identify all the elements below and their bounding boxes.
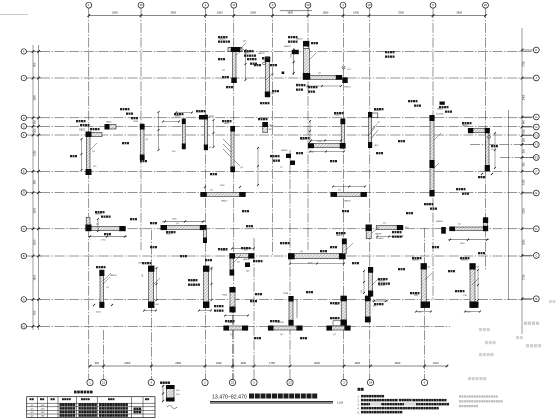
wall cluster C40 vertical pair above C37b <box>283 293 297 325</box>
wall cluster C37b bottom wall row <box>268 322 303 336</box>
wall cluster C7 <box>262 122 274 133</box>
svg-text:800: 800 <box>34 179 37 184</box>
wall cluster C22 vertical wall grid-21 low <box>93 270 118 314</box>
wall cluster C17 vertical wall grid-4 <box>368 110 381 148</box>
wall cluster C34 vertical wall right-low <box>412 260 431 314</box>
svg-text:1100: 1100 <box>433 361 439 365</box>
top-left margin dash <box>0 14 28 16</box>
svg-text:550: 550 <box>522 129 525 134</box>
floor drain symbols <box>263 62 491 138</box>
svg-text:1300: 1300 <box>354 361 360 365</box>
svg-text:1800: 1800 <box>287 11 293 15</box>
svg-text:F: F <box>535 169 537 173</box>
wall cluster C32 vertical wall low <box>334 296 347 326</box>
svg-text:23: 23 <box>288 381 292 385</box>
notes block <box>358 388 450 415</box>
svg-text:16: 16 <box>139 3 143 7</box>
horizontal grid lines <box>40 51 533 53</box>
top dimension line <box>88 11 487 17</box>
wall cluster C11 block at 18/K <box>342 77 351 88</box>
wall cluster C15 L-wall right top <box>462 125 495 179</box>
wall cluster C16 L-wall mid <box>300 115 346 154</box>
svg-text:1500: 1500 <box>34 95 37 101</box>
svg-text:GBZ19: GBZ19 <box>95 214 102 216</box>
svg-text:GBZ30: GBZ30 <box>243 259 250 261</box>
svg-text:600: 600 <box>522 119 525 124</box>
svg-text:GBZ6: GBZ6 <box>209 116 215 118</box>
wall cluster C24 vertical wall <box>138 263 160 308</box>
svg-text:1000: 1000 <box>34 239 37 245</box>
svg-text:GBZ36: GBZ36 <box>436 221 443 223</box>
wall cluster C30 long horizontal wall <box>288 235 347 265</box>
svg-text:GBZ20: GBZ20 <box>110 275 117 277</box>
svg-text:200x800: 200x800 <box>378 285 385 287</box>
svg-text:GBZ5: GBZ5 <box>175 116 181 118</box>
wall cluster C9 grid-3 top wall <box>258 53 275 97</box>
wall cluster C12 small block left of C10 <box>284 46 299 54</box>
svg-text:24: 24 <box>369 381 373 385</box>
wall cluster C8 grid-17 top wall <box>219 39 267 84</box>
svg-text:GBZ32: GBZ32 <box>336 235 343 237</box>
svg-text:B: B <box>23 254 25 258</box>
svg-text:GBZ12: GBZ12 <box>462 125 469 127</box>
svg-text:5.: 5. <box>358 411 360 414</box>
wall cluster C25 vertical wall <box>190 266 214 308</box>
svg-text:C: C <box>23 227 25 231</box>
right grid bubbles <box>522 47 539 302</box>
svg-text:G1: G1 <box>534 134 538 138</box>
svg-text:K: K <box>23 49 25 53</box>
svg-text:4.: 4. <box>358 407 360 410</box>
svg-text:GBZ34: GBZ34 <box>412 260 419 262</box>
svg-text:GBZ17: GBZ17 <box>221 201 228 203</box>
svg-text:1700: 1700 <box>522 61 525 67</box>
left grid bubbles <box>21 49 41 329</box>
svg-text:GBZ33: GBZ33 <box>378 281 385 283</box>
svg-text:GJZ1: GJZ1 <box>244 53 250 55</box>
annotation labels scatter <box>70 36 498 339</box>
svg-text:800: 800 <box>522 148 525 153</box>
svg-text:YBZ4: YBZ4 <box>133 121 139 123</box>
svg-text:1300: 1300 <box>34 207 37 213</box>
wall cluster C29 stub and horizontal wall <box>366 223 410 240</box>
svg-text:GBZ23: GBZ23 <box>296 39 303 41</box>
svg-text:H: H <box>535 115 537 119</box>
wall cluster C5 grid-2 vertical wall <box>197 112 215 151</box>
svg-text:2300: 2300 <box>125 361 131 365</box>
svg-text:2200: 2200 <box>522 208 525 214</box>
svg-text:900: 900 <box>34 62 37 67</box>
svg-text:C: C <box>535 254 537 258</box>
svg-text:200x600: 200x600 <box>376 238 383 240</box>
faint grey disclaimer text right of notes <box>459 395 503 407</box>
detail: lift shaft column section <box>160 382 181 409</box>
svg-text:300: 300 <box>34 128 37 133</box>
svg-text:3300: 3300 <box>170 11 176 15</box>
wall cluster C4 <box>172 116 186 154</box>
svg-text:20: 20 <box>484 3 488 7</box>
micro dimension rows and leaders <box>97 49 496 317</box>
tiny mark C38 <box>440 102 445 105</box>
svg-text:1750: 1750 <box>269 361 275 365</box>
wall cluster C20 horizontal wall bottom row2 right <box>331 190 367 203</box>
wall cluster C27 vertical wall below C26 <box>222 287 240 312</box>
svg-text:2600: 2600 <box>395 361 401 365</box>
svg-text:GBZ35: GBZ35 <box>461 260 468 262</box>
svg-text:D: D <box>23 191 25 195</box>
svg-text:YBZ14: YBZ14 <box>334 115 341 117</box>
wall cluster C35 vertical wall right-low 2 <box>461 260 480 314</box>
svg-text:2.: 2. <box>358 399 360 402</box>
svg-text:F1: F1 <box>535 143 539 147</box>
wall cluster C31 vertical wall <box>361 267 385 297</box>
svg-text:GBZ21: GBZ21 <box>219 39 226 41</box>
svg-text:550: 550 <box>522 137 525 142</box>
wall cluster C33 vertical wall low right <box>365 296 388 323</box>
svg-text:1400: 1400 <box>353 11 359 15</box>
wall cluster C28 small blocks <box>243 259 250 273</box>
svg-text:200x900: 200x900 <box>436 114 445 116</box>
svg-text:E1: E1 <box>535 156 539 160</box>
wall cluster C36 top-right horizontal wall <box>436 218 489 246</box>
wall cluster C10 L-wall grid-18 top <box>291 39 343 87</box>
table: shear wall reinforcement schedule <box>27 391 155 418</box>
svg-text:17: 17 <box>232 3 236 7</box>
svg-text:1:100: 1:100 <box>337 400 344 404</box>
svg-text:950: 950 <box>34 310 37 315</box>
svg-text:GBZ24: GBZ24 <box>284 46 291 48</box>
svg-text:GBZ22: GBZ22 <box>258 53 265 55</box>
svg-text:1300: 1300 <box>216 361 222 365</box>
svg-text:GBZ2: GBZ2 <box>79 130 86 132</box>
svg-text:A1: A1 <box>22 324 26 328</box>
wall cluster C3 grid-16 vertical wall <box>133 121 149 160</box>
svg-text:G: G <box>23 124 25 128</box>
svg-text:350: 350 <box>34 119 37 124</box>
svg-text:2900: 2900 <box>112 11 118 15</box>
bottom dimension line <box>89 361 449 367</box>
svg-text:1650: 1650 <box>522 239 525 245</box>
wall cluster C19 horizontal wall bottom row2 <box>200 185 245 203</box>
wall cluster C14 grid-19 long wall <box>424 109 445 207</box>
wall cluster C18 small blocks <box>280 150 295 169</box>
svg-text:E: E <box>23 169 25 173</box>
wall cluster C23 horizontal wall row3 <box>161 219 208 244</box>
svg-text:YBZ6: YBZ6 <box>222 295 228 297</box>
svg-text:GBZ18: GBZ18 <box>344 201 351 203</box>
drawing title <box>210 394 344 405</box>
svg-text:B: B <box>535 297 537 301</box>
right dimension lines <box>509 28 526 334</box>
wall cluster C21 L-wall row3 left <box>85 214 127 242</box>
svg-text:2700: 2700 <box>522 274 525 280</box>
svg-text:1500: 1500 <box>217 11 223 15</box>
svg-text:1.: 1. <box>358 395 360 398</box>
svg-text:K: K <box>535 48 537 52</box>
stair flight diagonals <box>223 127 378 157</box>
svg-text:640: 640 <box>95 361 100 365</box>
top grid bubbles <box>86 2 489 8</box>
svg-text:1800: 1800 <box>323 11 329 15</box>
svg-text:18: 18 <box>306 3 310 7</box>
wall cluster C1 grid-1/F <box>79 130 102 176</box>
tiny block C13 <box>282 72 285 75</box>
extra leader lines <box>90 49 479 285</box>
svg-text:GBZ25: GBZ25 <box>437 109 444 111</box>
svg-text:YBZ8: YBZ8 <box>283 293 289 295</box>
svg-text:1600: 1600 <box>34 274 37 280</box>
svg-text:GBZ7: GBZ7 <box>224 123 230 125</box>
svg-text:1000: 1000 <box>240 361 246 365</box>
svg-text:GBZ27: GBZ27 <box>166 234 173 236</box>
svg-text:YBZ8: YBZ8 <box>269 125 275 127</box>
svg-text:1300: 1300 <box>34 150 37 156</box>
wall cluster C2 small wall near 1/G <box>105 122 117 130</box>
svg-text:GBZ16: GBZ16 <box>281 150 288 152</box>
svg-text:19: 19 <box>367 3 371 7</box>
svg-text:2000: 2000 <box>250 11 256 15</box>
wall cluster C6 grid-17 vertical wall <box>224 123 244 172</box>
svg-text:1300: 1300 <box>522 179 525 185</box>
wall cluster C37a bottom wall row <box>223 322 248 336</box>
svg-text:D: D <box>535 227 537 231</box>
svg-text:A: A <box>23 297 25 301</box>
svg-text:21: 21 <box>102 381 106 385</box>
svg-text:2600: 2600 <box>175 361 181 365</box>
bottom grid bubbles <box>87 379 428 385</box>
svg-text:3300: 3300 <box>398 11 404 15</box>
vertical grid lines <box>88 8 90 379</box>
faint watermark glyphs <box>468 300 555 380</box>
svg-text:YBZ10: YBZ10 <box>344 87 351 89</box>
svg-text:H: H <box>23 116 25 120</box>
svg-text:GBZ3: GBZ3 <box>106 122 112 124</box>
svg-text:G: G <box>535 125 537 129</box>
svg-text:GBZ31: GBZ31 <box>375 234 382 236</box>
svg-text:13.470~82.470: 13.470~82.470 <box>212 394 247 400</box>
left dimension lines <box>32 45 40 330</box>
wall cluster C37c bottom wall row <box>326 318 350 336</box>
svg-text:22: 22 <box>231 381 235 385</box>
svg-text:E: E <box>535 191 537 195</box>
svg-text:2800: 2800 <box>456 11 462 15</box>
svg-text:3.: 3. <box>358 403 360 406</box>
svg-text:2400: 2400 <box>522 94 525 100</box>
wall cluster C26 gamma wall <box>221 250 254 276</box>
svg-text:2600: 2600 <box>314 361 320 365</box>
svg-text:850: 850 <box>522 162 525 167</box>
